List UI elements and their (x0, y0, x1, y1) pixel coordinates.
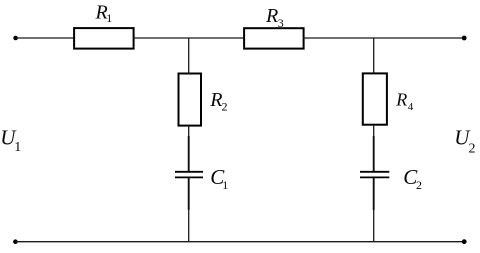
node: bottom-left terminal (13, 239, 18, 244)
node: output terminal top-right (462, 36, 467, 41)
svg-text:4: 4 (408, 101, 414, 113)
wire: R4 bottom lead (373, 126, 375, 137)
capacitor C2 (360, 165, 422, 192)
wire: node A down to R2 (188, 38, 190, 74)
svg-text:R: R (265, 5, 278, 27)
svg-text:3: 3 (278, 16, 284, 30)
resistor R4 (363, 73, 414, 124)
wire: top-left terminal to R1 left lead (16, 37, 74, 39)
svg-text:1: 1 (106, 11, 112, 25)
node: bottom-right terminal (462, 239, 467, 244)
node: input terminal top-left (13, 36, 18, 41)
resistor R2 (179, 74, 228, 126)
svg-text:1: 1 (14, 140, 21, 155)
svg-text:R: R (395, 89, 407, 109)
wire: C1 bottom lead (heavier) (188, 177, 190, 210)
svg-text:2: 2 (469, 141, 476, 156)
wire: C1 top lead (heavier) (188, 136, 190, 172)
resistor R1 (74, 2, 134, 49)
wire: bottom rail (15, 241, 464, 243)
wire: C1 lead down to bottom rail (188, 209, 190, 242)
wire: R2 bottom lead (188, 127, 190, 137)
svg-text:1: 1 (222, 178, 228, 192)
wire: R3 right lead to output terminal (through node B) (303, 37, 464, 39)
svg-text:2: 2 (416, 178, 422, 192)
resistor R3 (244, 5, 304, 49)
wire: R1 right lead to R3 left lead (through node A) (133, 37, 244, 39)
svg-text:R: R (209, 89, 222, 111)
capacitor C1 (175, 165, 228, 192)
wire: node B down to R4 (373, 38, 375, 74)
wire: C2 lead down to bottom rail (373, 209, 375, 242)
wire: C2 bottom lead (heavier) (373, 177, 375, 210)
wire: C2 top lead (heavier) (373, 136, 375, 172)
svg-text:2: 2 (222, 100, 228, 114)
